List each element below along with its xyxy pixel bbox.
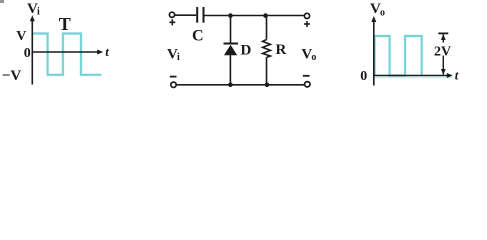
wire resistor branch upper [266,16,268,40]
svg-text:i: i [37,7,40,18]
svg-text:o: o [380,8,385,19]
svg-text:V: V [16,29,26,44]
node input terminal top [169,12,174,17]
dimension marker 2V stem [442,34,444,74]
wire output square wave [375,36,422,76]
node output terminal bottom [305,82,310,87]
dimension marker 2V top tick [438,32,448,34]
node minus sign bottom-right [303,75,310,77]
svg-text:C: C [192,28,204,45]
node junction bottom diode [228,83,233,88]
svg-text:2V: 2V [434,44,451,59]
node input terminal bottom [171,82,176,87]
wire baseline tint [375,77,452,79]
wire horizontal axis (left graph) [32,51,100,53]
node junction bottom resistor [265,83,270,88]
capacitor C [196,7,198,23]
svg-text:R: R [276,42,287,58]
wire diode branch upper [230,16,232,44]
svg-text:t: t [105,44,109,59]
node junction top diode [228,13,233,18]
node plus sign top-right [304,21,310,27]
svg-text:0: 0 [360,69,367,84]
wire horizontal axis (right graph) [374,75,450,77]
svg-text:0: 0 [24,46,31,61]
svg-text:T: T [59,14,71,34]
node junction top resistor [263,13,268,18]
wire input square wave [33,34,102,75]
node minus sign bottom-left [170,76,177,78]
wire diode branch lower [229,55,231,85]
svg-text:−V: −V [2,68,22,84]
node plus sign top-left [169,19,175,25]
svg-text:o: o [311,52,316,63]
wire vertical axis (left graph) [31,19,33,85]
diode D [224,43,239,45]
corner smudge [0,0,4,3]
resistor R [263,40,271,58]
value label 2V [434,43,450,56]
wire bottom segment [176,84,304,86]
svg-text:D: D [241,43,252,59]
svg-text:i: i [177,52,180,63]
wire resistor branch lower [266,57,268,84]
wire top middle segment [205,15,305,17]
node output terminal top [304,13,309,18]
wire top left segment [175,14,197,16]
svg-text:t: t [455,68,459,83]
wire vertical axis (right graph) [373,20,375,86]
